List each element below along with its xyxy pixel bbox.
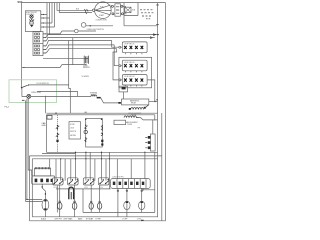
svg-text:SWITCH: SWITCH xyxy=(70,131,76,133)
element coil C1 xyxy=(57,185,62,217)
relay K1 box xyxy=(115,4,121,16)
switch door S1 xyxy=(22,85,28,87)
wire riser pin1 xyxy=(44,3,47,38)
wire drop to switch blocks 2 xyxy=(114,45,118,66)
svg-text:LT HI: LT HI xyxy=(137,218,141,220)
legend box xyxy=(69,122,81,139)
wire bus H3 xyxy=(46,38,155,41)
wire left border into switch xyxy=(21,80,23,88)
svg-text:GND: GND xyxy=(42,125,47,127)
resistor oven sensor xyxy=(84,56,88,64)
svg-text:LOCK: LOCK xyxy=(70,128,74,130)
terminal circles above elements xyxy=(59,201,61,203)
wire riser pin2 xyxy=(44,3,50,35)
element right E2 xyxy=(139,188,145,212)
switch bank SB3 xyxy=(122,75,147,87)
switch box surface D xyxy=(98,178,109,185)
wire switch down xyxy=(22,88,27,97)
wire center bus A xyxy=(47,112,158,114)
svg-text:L1 H1 L2 H2 P N: L1 H1 L2 H2 P N xyxy=(112,177,123,179)
resistor broil element xyxy=(131,107,144,109)
connector door motor xyxy=(145,134,155,151)
tick arrows on bus xyxy=(156,5,159,25)
wire drop from bus to door motor xyxy=(154,115,156,121)
svg-text:2700W: 2700W xyxy=(127,124,133,126)
wire TB1 down xyxy=(42,184,45,199)
pin 3 of control xyxy=(41,22,43,24)
svg-text:CONVECTION: CONVECTION xyxy=(96,20,108,22)
switch box surface B xyxy=(68,178,79,185)
box bake broil relay xyxy=(122,99,149,105)
resistor thermal fuse xyxy=(91,95,97,97)
lamp on wire xyxy=(75,29,79,33)
fusible link dark xyxy=(97,97,101,99)
wire bottom section top xyxy=(47,151,158,153)
box latch relay xyxy=(119,86,128,92)
wire mid feed xyxy=(43,57,84,59)
terminal block TB1 xyxy=(32,176,55,184)
relay TOD small xyxy=(47,116,52,120)
probe element xyxy=(69,187,74,199)
pin 4 of control xyxy=(41,26,43,28)
switch bank SB2 xyxy=(122,60,147,72)
wire bus H5 xyxy=(46,45,114,50)
wire vertical V70 xyxy=(69,41,71,114)
svg-text:SHOWN: SHOWN xyxy=(70,135,76,137)
wire fan to bus xyxy=(86,25,113,27)
svg-text:SENSOR: SENSOR xyxy=(83,67,91,69)
switch chain latch 2 xyxy=(84,125,88,142)
element right E1 xyxy=(124,188,130,216)
wire relay to right box xyxy=(123,6,127,14)
svg-text:LEFT FRT: LEFT FRT xyxy=(55,218,62,220)
svg-text:LF RF RR LR: LF RF RR LR xyxy=(124,44,135,46)
element coil C2 xyxy=(72,185,77,217)
wire switch to V70 xyxy=(29,84,68,86)
pin 1 of control xyxy=(41,14,43,16)
element coil C3 xyxy=(89,185,93,212)
wire drops to surface switches xyxy=(56,152,109,189)
wire center bus B xyxy=(47,114,155,116)
svg-text:DOOR SWITCH: DOOR SWITCH xyxy=(37,83,50,85)
frame bottom outer xyxy=(30,113,166,221)
node H2 right xyxy=(157,34,158,35)
wire mid horizontal xyxy=(56,188,111,190)
node center bus xyxy=(55,113,56,114)
infinite switch bank xyxy=(111,177,151,189)
wire fuse to relay box xyxy=(101,98,119,103)
svg-text:16 WHITE: 16 WHITE xyxy=(82,76,89,78)
wire motor feed N xyxy=(59,3,92,13)
motor M1 convection xyxy=(95,2,112,19)
clock icon inside control xyxy=(29,15,34,27)
wire drop to switch blocks 3 xyxy=(113,49,119,80)
relay terminal c xyxy=(121,5,123,7)
wire bus to connector xyxy=(152,120,154,134)
node tick left border xyxy=(22,67,25,69)
wire riser pin3 xyxy=(44,3,52,23)
wire right border L1 bus xyxy=(165,3,167,221)
terminal dark xyxy=(118,102,121,104)
frame bottom inner xyxy=(32,152,158,217)
svg-text:RT FRT: RT FRT xyxy=(96,218,102,220)
relay terminal d xyxy=(121,13,123,15)
wire lamp return b xyxy=(28,99,32,176)
node bake bus xyxy=(154,101,155,102)
wire bank drop left xyxy=(117,188,119,216)
top right enclosure xyxy=(124,3,158,26)
wire bus H2 xyxy=(46,35,158,38)
solenoid box xyxy=(35,159,51,176)
motor terminal node xyxy=(93,9,95,11)
svg-text:LF RF RR LR: LF RF RR LR xyxy=(124,62,135,64)
svg-text:FUSE: FUSE xyxy=(91,94,95,96)
oven lamp assembly xyxy=(42,193,49,210)
terminal circles at block leads xyxy=(119,46,121,48)
pins of connector P1 xyxy=(43,33,46,53)
resistor bake element xyxy=(124,116,139,118)
box door lock assembly xyxy=(85,118,102,147)
wire bus H6 xyxy=(46,49,117,53)
wire bus H1 lamp line xyxy=(46,31,74,34)
wire lamp return a xyxy=(27,99,42,200)
svg-text:LT OFF: LT OFF xyxy=(122,218,127,220)
relay terminal a xyxy=(111,5,113,7)
wire bus H4 xyxy=(46,41,112,46)
connector P1 xyxy=(33,31,43,55)
svg-text:OVEN LIGHT: OVEN LIGHT xyxy=(31,92,41,94)
wire left border xyxy=(21,3,23,80)
svg-text:B8: B8 xyxy=(156,100,158,102)
op box electronic range control U1 xyxy=(25,11,40,32)
wire riser pin4 xyxy=(44,3,55,27)
relay K2 latch xyxy=(125,7,135,12)
latch linkage dashes xyxy=(140,10,154,19)
wire right bus N xyxy=(157,3,159,217)
highlight green box xyxy=(9,80,57,103)
svg-text:DLB: DLB xyxy=(132,10,135,12)
wire green drop xyxy=(45,96,47,114)
wire oven light row2 xyxy=(37,91,78,96)
svg-text:P9: P9 xyxy=(138,127,140,129)
lamp oven light xyxy=(27,94,31,98)
element coil C4 xyxy=(97,185,101,212)
wire bottom right joins xyxy=(83,211,155,213)
switch box surface A xyxy=(53,178,64,185)
switch chain latch 3 xyxy=(101,125,103,145)
wire bus left drop xyxy=(46,115,48,153)
wire label hash marks xyxy=(84,9,88,14)
wire SB3 to bus xyxy=(147,80,155,102)
wire oven sensor feed xyxy=(22,64,86,68)
wire drop to switch blocks 1 xyxy=(112,41,119,48)
relay terminal b xyxy=(112,13,114,15)
switch box surface C xyxy=(83,178,94,185)
wire top border xyxy=(22,2,166,4)
wire vertical V73 xyxy=(72,38,74,65)
box bank enclosure xyxy=(119,57,152,88)
switch bank SB1 xyxy=(122,42,147,54)
wire motor feed L1 xyxy=(57,3,93,11)
pin 2 of control xyxy=(41,17,43,19)
fan motor small xyxy=(81,23,86,28)
wire second left drop xyxy=(56,186,58,213)
box small top right xyxy=(114,120,126,124)
node on fan wire xyxy=(90,25,91,26)
svg-text:LF RF RR LR: LF RF RR LR xyxy=(124,76,135,78)
wires into bank xyxy=(117,152,145,178)
switch chain latch 1 xyxy=(56,115,59,153)
node under bank xyxy=(142,189,143,190)
wire lamp to fuse xyxy=(31,95,91,97)
